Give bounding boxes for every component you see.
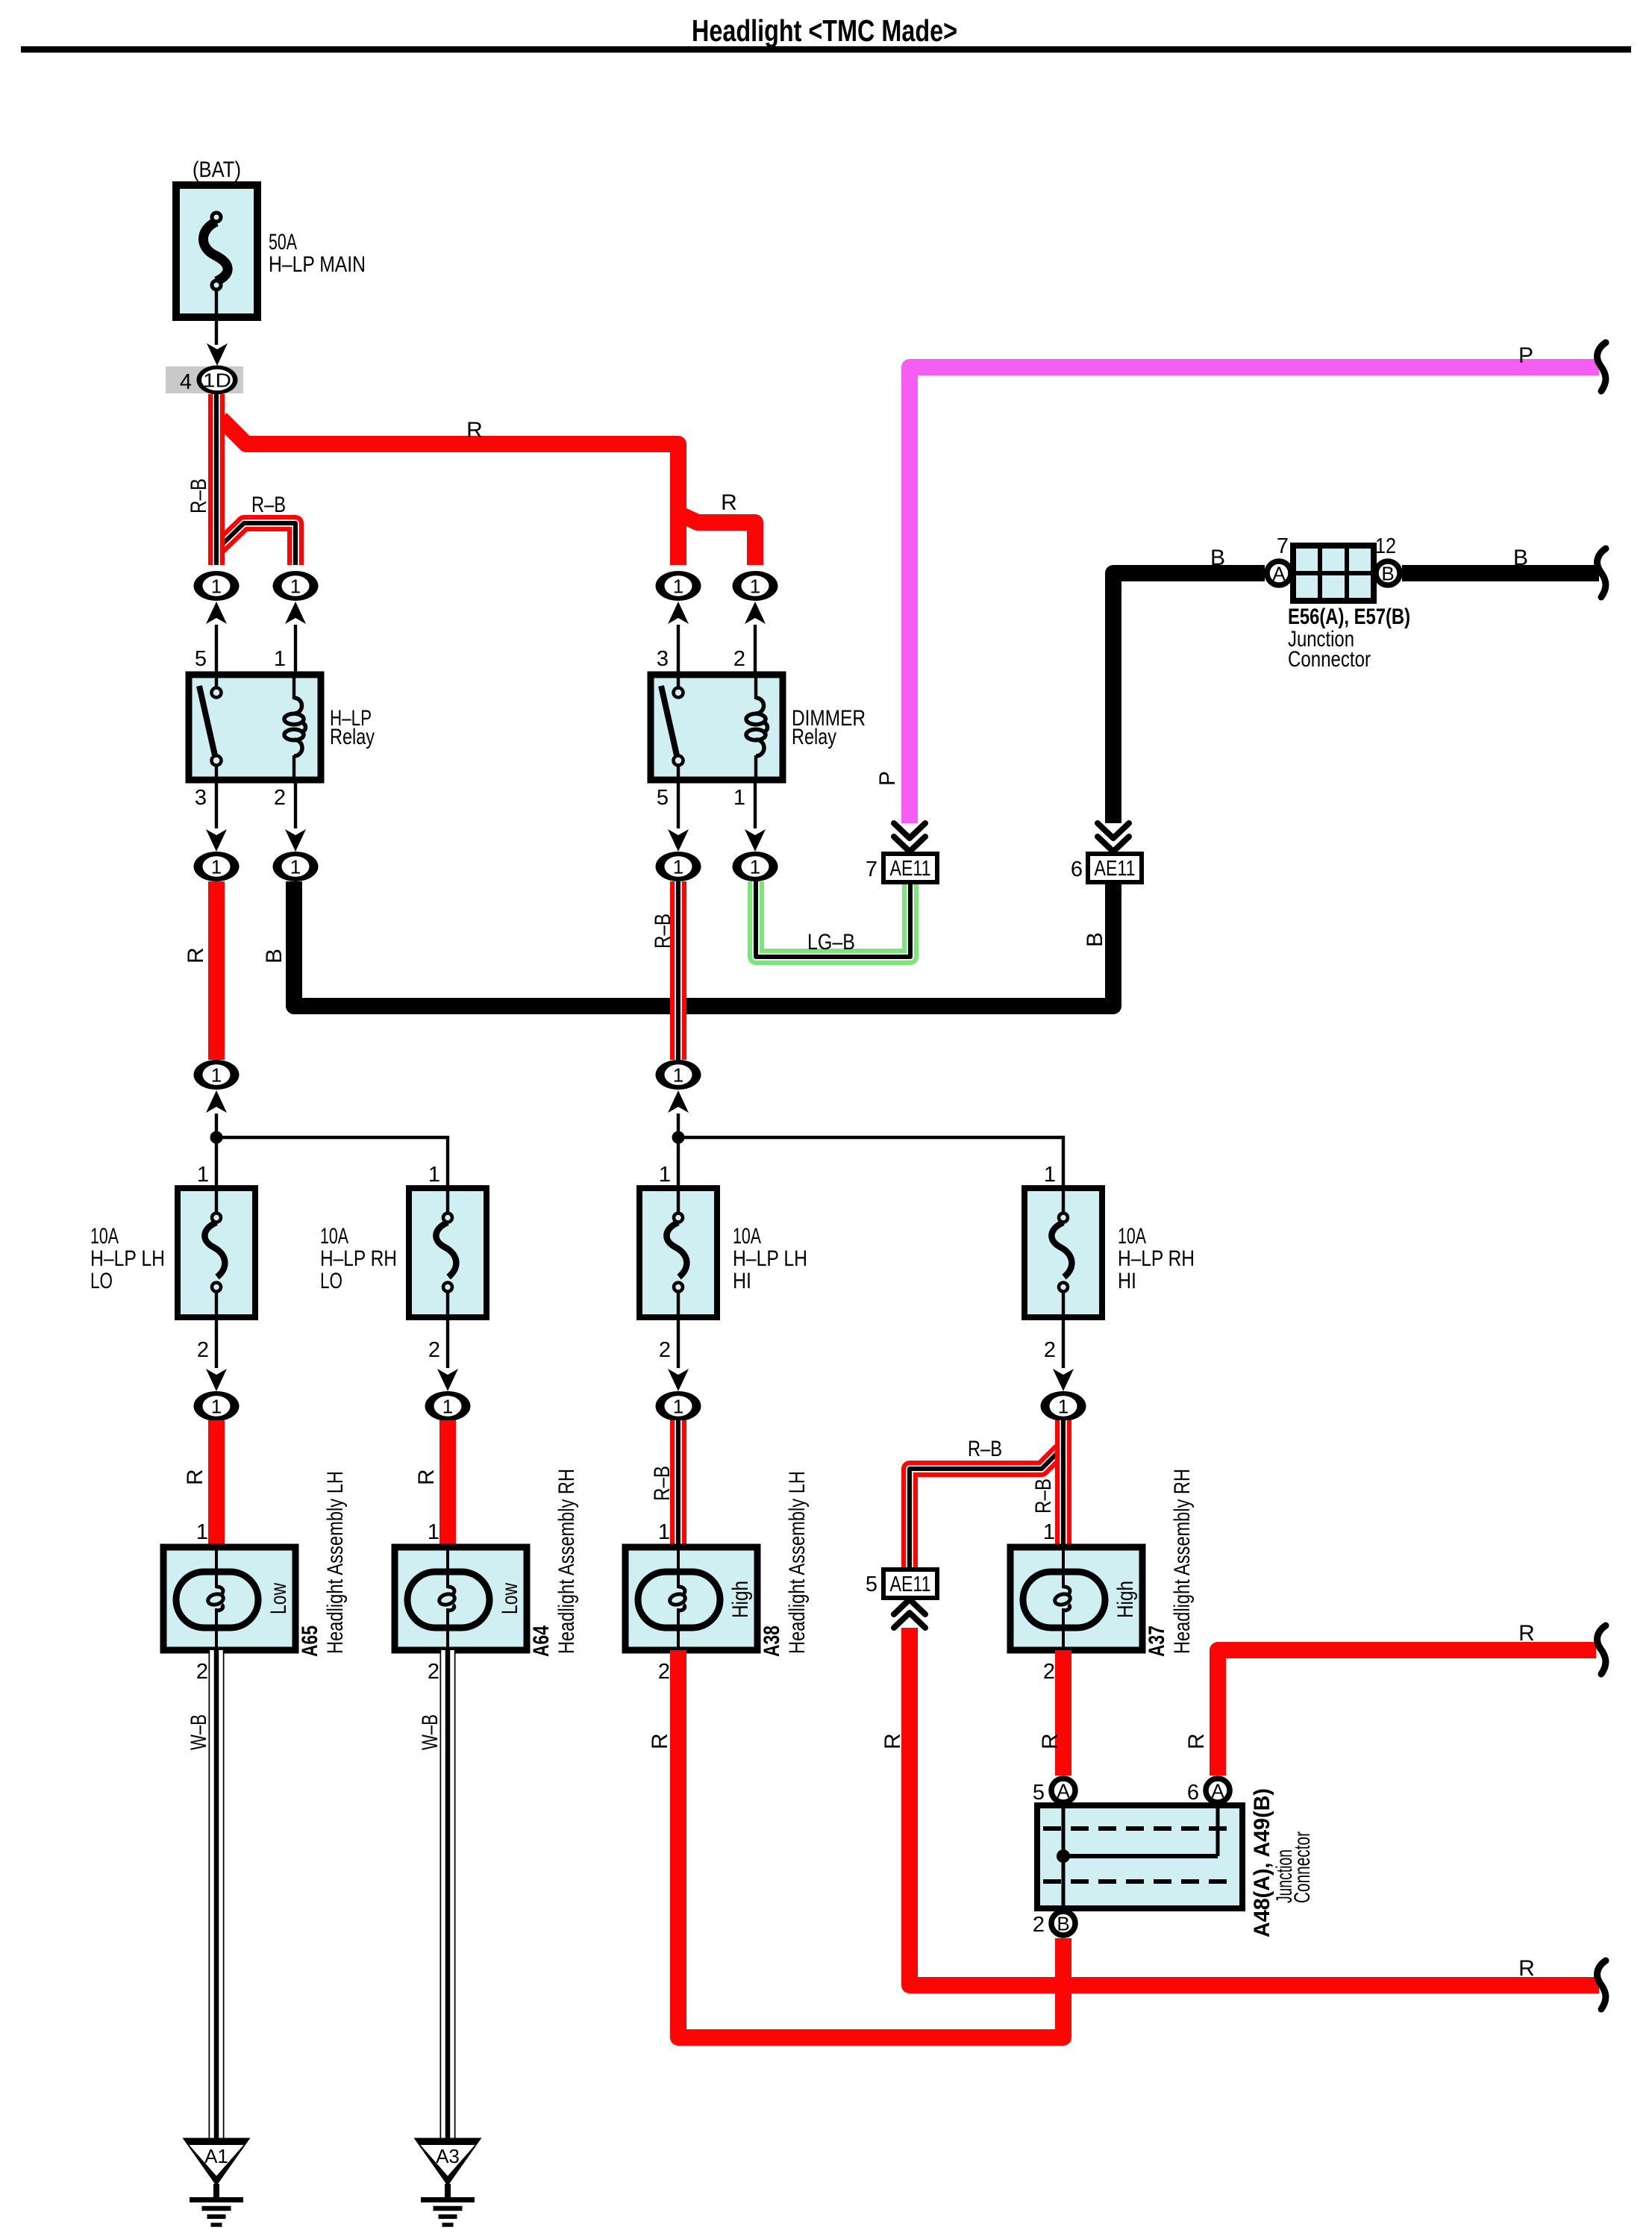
svg-text:1: 1	[750, 575, 760, 598]
svg-text:1: 1	[673, 575, 683, 598]
wire LG-B (DIMMER relay pin1 to AE11 no.7)	[756, 881, 910, 957]
svg-text:R: R	[184, 947, 208, 964]
connector terminal 1 below relay pin 3 (x=290)	[194, 780, 240, 881]
label R-B (branch to AE11 no.5)	[968, 1437, 1002, 1461]
svg-text:High: High	[1113, 1581, 1138, 1618]
title underline	[21, 46, 1631, 53]
label 50A H-LP MAIN	[269, 230, 366, 277]
pin 2 of A64	[428, 1660, 439, 1684]
label R (to A65)	[183, 1469, 207, 1485]
svg-text:1: 1	[211, 856, 222, 878]
svg-text:A38: A38	[760, 1626, 784, 1657]
label R (A38 down)	[648, 1733, 672, 1749]
wire R (A38 pin2 to junction connector B)	[678, 1650, 1063, 2037]
pin 2 of A38	[658, 1660, 670, 1684]
wire B (junction connector to corner and down to AE11 no.6)	[1113, 573, 1265, 823]
junction connector E56/E57 box	[1293, 546, 1374, 601]
label A37 Headlight Assembly RH	[1145, 1469, 1195, 1657]
svg-text:1: 1	[733, 786, 745, 810]
headlight bulb A38 (High)	[625, 1547, 757, 1650]
label 10A H–LP LH HI	[733, 1224, 807, 1293]
wire R branch (to DIMMER relay pin2)	[678, 513, 755, 565]
break symbol B wire	[1598, 549, 1606, 597]
svg-text:B: B	[262, 949, 287, 964]
pin 2 of fuse at x=909	[659, 1338, 671, 1362]
wire R (fuse RH LO to A64)	[439, 1420, 456, 1547]
svg-text:1: 1	[274, 647, 286, 671]
terminal B no.2 (A49)	[1033, 1911, 1075, 1937]
svg-text:1: 1	[428, 1163, 440, 1187]
svg-text:R: R	[466, 418, 483, 443]
svg-text:AE11: AE11	[890, 857, 931, 881]
headlight bulb A37 (High)	[1010, 1547, 1142, 1650]
pin 2 of A65	[196, 1660, 208, 1684]
label R (branch)	[721, 490, 737, 515]
svg-text:2: 2	[659, 1338, 671, 1362]
label A48(A), A49(B) Junction Connector	[1250, 1788, 1315, 1937]
fusible link 50A H-LP MAIN	[176, 185, 257, 317]
svg-text:7: 7	[1277, 534, 1289, 558]
break symbol R wire upper	[1598, 1626, 1606, 1674]
svg-text:1: 1	[211, 1064, 222, 1087]
connector AE11 no.7	[866, 854, 937, 882]
wire B (H-LP relay pin2 to ground trunk)	[294, 881, 1113, 1006]
label 10A H–LP LH LO	[90, 1224, 165, 1293]
label P (vertical)	[875, 771, 900, 786]
label R-B (to A38)	[650, 1466, 675, 1501]
label H-LP Relay	[330, 706, 375, 749]
svg-text:1: 1	[1043, 1520, 1055, 1544]
double chevron into AE11 no.6	[1098, 823, 1129, 852]
svg-text:A1: A1	[204, 2145, 228, 2167]
fuse 10A H–LP RH LO	[409, 1188, 486, 1317]
wire R-B (DIMMER relay pin5 to fuse row)	[670, 881, 686, 1060]
label LG-B	[807, 930, 855, 955]
svg-text:4: 4	[180, 370, 192, 394]
svg-text:6: 6	[1187, 1781, 1199, 1805]
svg-text:A64: A64	[529, 1626, 554, 1657]
svg-text:P: P	[875, 771, 900, 786]
svg-text:B: B	[1083, 932, 1107, 947]
svg-text:H–LP RH: H–LP RH	[320, 1246, 397, 1271]
svg-text:1D: 1D	[203, 369, 231, 392]
label DIMMER Relay	[792, 706, 866, 749]
svg-text:Headlight Assembly RH: Headlight Assembly RH	[554, 1469, 579, 1654]
svg-text:R: R	[721, 490, 737, 515]
label B (H-LP out)	[262, 949, 287, 964]
svg-text:R: R	[1184, 1733, 1209, 1749]
pin 1 of A65	[196, 1520, 208, 1544]
pin 1 of A37	[1043, 1520, 1055, 1544]
svg-text:1: 1	[196, 1520, 208, 1544]
svg-text:Relay: Relay	[330, 725, 375, 749]
label R (to A64)	[414, 1469, 439, 1485]
arrow into 1D	[207, 343, 228, 366]
svg-text:2: 2	[274, 786, 286, 810]
connector terminal 1 below fuse at x=1425	[1041, 1317, 1086, 1421]
svg-text:2: 2	[428, 1338, 440, 1362]
svg-text:2: 2	[428, 1660, 439, 1684]
svg-text:10A: 10A	[90, 1224, 119, 1249]
svg-text:Connector: Connector	[1290, 1832, 1315, 1903]
junction connector A48/A49 box	[1037, 1805, 1242, 1908]
connector terminal 1 above HI fuses	[656, 1060, 701, 1188]
svg-text:H–LP RH: H–LP RH	[1118, 1246, 1195, 1271]
svg-text:LG–B: LG–B	[807, 930, 855, 955]
wire node split LO side	[210, 1131, 448, 1189]
svg-text:R: R	[1518, 1621, 1535, 1646]
break symbol R wire lower	[1598, 1961, 1606, 2009]
svg-text:W–B: W–B	[418, 1714, 442, 1750]
relay H-LP (box)	[189, 675, 321, 780]
label W-B (A64)	[418, 1714, 442, 1750]
svg-text:2: 2	[1044, 1338, 1056, 1362]
fuse 10A H–LP LH LO	[178, 1188, 255, 1317]
wire B (junction connector right to break)	[1402, 565, 1599, 581]
svg-text:H–LP MAIN: H–LP MAIN	[269, 252, 366, 277]
svg-text:Low: Low	[266, 1583, 291, 1614]
connector terminal 1 below fuse at x=290	[194, 1317, 240, 1421]
label R-B (branch)	[251, 493, 286, 517]
connector terminal 1 above H-LP fuses	[194, 1060, 240, 1188]
label E56(A), E57(B) Junction Connector	[1288, 605, 1410, 672]
connector 4(1D)	[166, 366, 243, 395]
headlight bulb A64 (Low)	[395, 1547, 527, 1650]
svg-text:B: B	[1210, 546, 1225, 570]
svg-text:HI: HI	[733, 1269, 751, 1293]
connector terminal 1 above relay pin 3 (x=909)	[656, 571, 701, 675]
label A64 Headlight Assembly RH	[529, 1469, 579, 1657]
pin 1 of fuse at x=909	[659, 1163, 671, 1187]
svg-text:AE11: AE11	[1095, 857, 1136, 881]
svg-text:HI: HI	[1118, 1269, 1136, 1293]
svg-text:A37: A37	[1145, 1626, 1169, 1657]
label R (A37 down)	[1038, 1733, 1063, 1749]
svg-text:1: 1	[290, 575, 301, 598]
svg-text:1: 1	[211, 1396, 222, 1418]
pin 1 of fuse at x=1425	[1044, 1163, 1056, 1187]
svg-text:R: R	[1518, 1956, 1535, 1981]
svg-text:1: 1	[673, 1064, 683, 1087]
svg-text:1: 1	[659, 1163, 671, 1187]
label R (trunk)	[466, 418, 483, 443]
svg-text:Headlight Assembly RH: Headlight Assembly RH	[1170, 1469, 1195, 1654]
svg-text:R–B: R–B	[1031, 1478, 1056, 1514]
wire node split HI side	[672, 1131, 1064, 1189]
pin 7 (E56 A)	[1277, 534, 1289, 558]
ground A3	[414, 2138, 482, 2226]
svg-text:12: 12	[1375, 534, 1396, 558]
pin 2 of fuse at x=290	[197, 1338, 209, 1362]
connector terminal 1 above relay pin 5 (x=290)	[194, 571, 240, 675]
svg-text:LO: LO	[320, 1269, 342, 1293]
svg-text:2: 2	[1033, 1913, 1045, 1937]
svg-text:R–B: R–B	[251, 493, 286, 517]
double chevron below AE11 no.5	[894, 1599, 925, 1628]
wire P (from DIMMER coil circuit to right break)	[910, 367, 1599, 823]
wire R (junction connector A no.6 to right break)	[1218, 1650, 1596, 1776]
connector terminal 1 above relay pin 2 (x=1012)	[733, 571, 778, 675]
label P (top right)	[1518, 343, 1533, 368]
svg-text:1: 1	[290, 856, 301, 878]
svg-text:R–B: R–B	[650, 1466, 675, 1501]
svg-text:Headlight <TMC Made>: Headlight <TMC Made>	[692, 13, 957, 48]
svg-text:W–B: W–B	[187, 1714, 211, 1750]
svg-text:R: R	[648, 1733, 672, 1749]
label (BAT)	[193, 157, 241, 182]
svg-text:Headlight Assembly LH: Headlight Assembly LH	[785, 1471, 810, 1654]
svg-text:10A: 10A	[1118, 1224, 1146, 1249]
double chevron into AE11 no.7	[894, 823, 925, 852]
svg-text:2: 2	[197, 1338, 209, 1362]
label R-B (DIMMER out)	[651, 914, 675, 949]
svg-text:Relay: Relay	[792, 725, 836, 749]
connector AE11 no.5	[866, 1570, 937, 1598]
svg-text:A: A	[1272, 563, 1286, 585]
svg-text:Connector: Connector	[1288, 647, 1371, 672]
svg-text:R: R	[880, 1733, 905, 1749]
label R-B (vertical)	[187, 478, 211, 513]
svg-text:1: 1	[658, 1520, 670, 1544]
fuse 10A H–LP LH HI	[639, 1188, 717, 1317]
svg-text:(BAT): (BAT)	[193, 157, 241, 182]
svg-text:2: 2	[196, 1660, 208, 1684]
svg-text:1: 1	[442, 1396, 453, 1418]
connector terminal 1 below relay pin 2 (x=396)	[273, 780, 319, 881]
svg-text:1: 1	[673, 1396, 683, 1418]
pin 1 of A38	[658, 1520, 670, 1544]
wire R-B (fuse RH HI to A37)	[1055, 1420, 1071, 1547]
headlight bulb A65 (Low)	[163, 1547, 295, 1650]
wire R (AE11 no.5 to lower right break)	[910, 1628, 1599, 1985]
wire R (A37 pin2 to junction connector A no.5)	[1055, 1650, 1071, 1776]
svg-text:B: B	[1057, 1913, 1069, 1935]
svg-text:A65: A65	[298, 1626, 322, 1657]
connector AE11 no.6	[1071, 854, 1142, 882]
svg-text:3: 3	[657, 647, 669, 671]
label R (H-LP out)	[184, 947, 208, 964]
svg-text:5: 5	[1033, 1781, 1045, 1805]
wire R-B (1D to H-LP relay pin5)	[208, 394, 225, 565]
relay DIMMER (box)	[651, 675, 783, 780]
svg-text:A: A	[1057, 1780, 1070, 1802]
label W-B (A65)	[187, 1714, 211, 1750]
pin 2 of A37	[1043, 1660, 1055, 1684]
terminal A no.5 (A48)	[1033, 1779, 1075, 1805]
connector terminal 1 below fuse at x=600	[425, 1317, 471, 1421]
wire R-B branch (to AE11 no.5)	[910, 1450, 1060, 1570]
svg-text:R: R	[414, 1469, 439, 1485]
svg-text:1: 1	[197, 1163, 209, 1187]
svg-text:1: 1	[428, 1520, 439, 1544]
svg-text:10A: 10A	[320, 1224, 348, 1249]
connector terminal 1 below relay pin 5 (x=909)	[656, 780, 701, 881]
svg-text:10A: 10A	[733, 1224, 761, 1249]
svg-text:1: 1	[673, 856, 683, 878]
label B (left of junction connector)	[1210, 546, 1225, 570]
label A38 Headlight Assembly LH	[760, 1471, 810, 1657]
wire fuse to 1D	[215, 317, 218, 345]
break symbol P wire	[1598, 343, 1606, 391]
svg-text:A: A	[1211, 1780, 1224, 1802]
svg-text:2: 2	[658, 1660, 670, 1684]
wire R-B (fuse LH HI to A38)	[670, 1420, 686, 1547]
wire W-B (A64 to ground A3)	[440, 1650, 456, 2139]
svg-text:5: 5	[866, 1573, 877, 1596]
svg-text:3: 3	[195, 786, 207, 810]
svg-text:H–LP LH: H–LP LH	[733, 1246, 807, 1271]
ground A1	[183, 2138, 251, 2226]
svg-text:B: B	[1513, 546, 1528, 570]
wire R (fuse LH LO to A65)	[208, 1420, 225, 1547]
svg-text:5: 5	[657, 786, 669, 810]
svg-text:R: R	[183, 1469, 207, 1485]
label A65 Headlight Assembly LH	[298, 1471, 348, 1657]
svg-text:E56(A), E57(B): E56(A), E57(B)	[1288, 605, 1410, 629]
label R (y2211 break wire)	[1518, 1621, 1535, 1646]
svg-text:A48(A), A49(B): A48(A), A49(B)	[1250, 1788, 1274, 1937]
svg-text:1: 1	[750, 856, 760, 878]
svg-text:1: 1	[211, 575, 222, 598]
label R (x1632 wire)	[1184, 1733, 1209, 1749]
pin 1 of fuse at x=600	[428, 1163, 440, 1187]
pin 1 of A64	[428, 1520, 439, 1544]
connector terminal 1 below relay pin 1 (x=1012)	[733, 780, 778, 881]
label R (AE11 no.5 down)	[880, 1733, 905, 1749]
label R-B (to A37)	[1031, 1478, 1056, 1514]
svg-text:R–B: R–B	[187, 478, 211, 513]
svg-text:B: B	[1381, 563, 1394, 585]
svg-text:AE11: AE11	[890, 1573, 931, 1596]
svg-text:5: 5	[195, 647, 207, 671]
connector terminal 1 below fuse at x=909	[656, 1317, 701, 1421]
svg-text:Headlight Assembly LH: Headlight Assembly LH	[323, 1471, 348, 1654]
svg-text:R–B: R–B	[968, 1437, 1002, 1461]
svg-text:High: High	[728, 1581, 753, 1618]
svg-text:A3: A3	[436, 2145, 460, 2167]
connector terminal 1 above relay pin 1 (x=396)	[273, 571, 319, 675]
wire W-B (A65 to ground A1)	[209, 1650, 225, 2139]
svg-text:1: 1	[1044, 1163, 1056, 1187]
svg-text:R: R	[1038, 1733, 1063, 1749]
title: Headlight <TMC Made>	[692, 13, 957, 48]
label 10A H–LP RH LO	[320, 1224, 397, 1293]
wire R (H-LP relay pin3 to fuse row)	[208, 881, 225, 1060]
terminal B (E57)	[1376, 561, 1400, 585]
label 10A H–LP RH HI	[1118, 1224, 1195, 1293]
label B (right of junction connector)	[1513, 546, 1528, 570]
svg-text:1: 1	[1058, 1396, 1069, 1418]
label R (y2660 break wire)	[1518, 1956, 1535, 1981]
svg-text:R–B: R–B	[651, 914, 675, 949]
svg-text:LO: LO	[90, 1269, 113, 1293]
label B (AE11 no.6 wire)	[1083, 932, 1107, 947]
svg-text:7: 7	[866, 858, 877, 881]
svg-text:50A: 50A	[269, 230, 297, 254]
wire R-B branch (to H-LP relay pin1)	[219, 523, 295, 565]
pin 12 (E57 B)	[1375, 534, 1396, 558]
pin 2 of fuse at x=1425	[1044, 1338, 1056, 1362]
terminal A no.6 (A48)	[1187, 1779, 1230, 1805]
svg-text:2: 2	[733, 647, 745, 671]
svg-text:2: 2	[1043, 1660, 1055, 1684]
svg-text:P: P	[1518, 343, 1533, 368]
fuse 10A H–LP RH HI	[1024, 1188, 1102, 1317]
svg-text:6: 6	[1071, 858, 1083, 881]
pin 2 of fuse at x=600	[428, 1338, 440, 1362]
svg-text:H–LP LH: H–LP LH	[90, 1246, 165, 1271]
svg-text:Low: Low	[498, 1583, 522, 1614]
pin 1 of fuse at x=290	[197, 1163, 209, 1187]
terminal A (E56)	[1267, 561, 1291, 585]
wire R trunk (1D to DIMMER relay pin3)	[221, 419, 678, 565]
